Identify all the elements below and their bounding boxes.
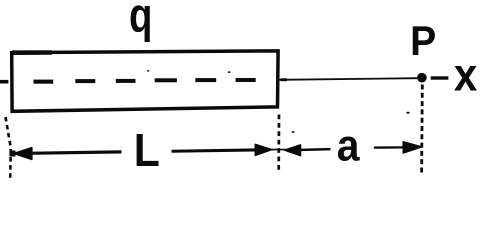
svg-text:q: q	[129, 0, 152, 43]
dashed extension line below rod left edge	[6, 117, 11, 179]
rod dashed centerline: dash 1	[34, 80, 54, 84]
svg-text:P: P	[410, 18, 436, 64]
dimension L: left arrowhead	[14, 148, 32, 160]
rod dashed centerline: dash 4	[155, 78, 177, 82]
dimension a: shaft left segment	[297, 148, 331, 151]
axis dash between dot and x label	[431, 76, 449, 79]
thin connector across right dashed line	[271, 149, 286, 151]
dashed extension line below rod right edge	[277, 115, 280, 173]
point P dot	[417, 73, 427, 83]
scan speck near dash 3	[147, 70, 149, 71]
ink blob at L left arrow tip	[10, 151, 16, 157]
scan speck right of rod corner	[292, 131, 295, 133]
x-axis line from rod to point P	[279, 77, 418, 81]
svg-text:a: a	[337, 122, 360, 171]
dimension a: shaft right segment	[374, 146, 405, 149]
rod dashed centerline: dash 5	[195, 78, 216, 82]
rod dashed centerline: dash 6	[236, 78, 256, 82]
charged rod (rectangle)	[12, 51, 278, 111]
rod top-edge ink overlap	[12, 50, 52, 55]
svg-text:L: L	[134, 124, 160, 176]
dimension L: shaft right segment	[172, 148, 258, 153]
dashed extension line below point P	[420, 85, 423, 175]
x-axis line ink blob near rod	[281, 78, 288, 81]
dimension L: right arrowhead	[255, 144, 271, 155]
scan speck near dash 5	[228, 71, 230, 73]
dimension a: right arrowhead	[403, 142, 421, 153]
dimension a: left arrowhead	[285, 145, 301, 156]
rod dashed centerline: dash 3	[116, 79, 136, 83]
scan speck below axis right	[407, 112, 410, 114]
rod dashed centerline: left fragment outside rod	[0, 80, 8, 84]
svg-text:x: x	[454, 50, 478, 101]
dimension L: shaft left segment	[27, 150, 122, 155]
rod dashed centerline: dash 2	[75, 79, 95, 83]
